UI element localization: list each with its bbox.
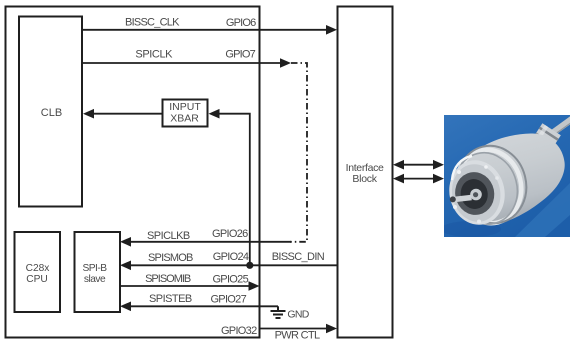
junction dot BISSC_DIN node bbox=[246, 262, 253, 269]
svg-text:PWR CTL: PWR CTL bbox=[275, 330, 320, 342]
hub bbox=[470, 189, 482, 201]
wire SPICLKB GPIO26 bbox=[129, 241, 291, 243]
cable bbox=[547, 119, 572, 137]
arrowhead into INPUT XBAR bbox=[209, 109, 220, 119]
front face rim bbox=[443, 155, 510, 230]
svg-text:GPIO32: GPIO32 bbox=[221, 325, 257, 337]
CLB block bbox=[19, 17, 82, 207]
svg-text:GPIO27: GPIO27 bbox=[210, 294, 246, 306]
dash-dot loopback wire GPIO7 to GPIO26 bbox=[290, 63, 307, 242]
bidirectional wire Interface Block to encoder (lower) bbox=[400, 178, 437, 180]
wire BISSC_DIN branch to INPUT XBAR bbox=[217, 114, 250, 266]
svg-text:C28x: C28x bbox=[26, 263, 50, 274]
svg-text:BISSC_DIN: BISSC_DIN bbox=[272, 251, 325, 263]
svg-text:GPIO25: GPIO25 bbox=[212, 274, 248, 286]
background reflection band bbox=[515, 183, 570, 237]
arrowhead PWR CTL into Interface Block bbox=[326, 324, 337, 334]
svg-text:GPIO24: GPIO24 bbox=[213, 251, 249, 263]
encoder photo bbox=[441, 115, 572, 237]
wire SPICLK GPIO7 bbox=[82, 62, 282, 64]
wire SPISTEB GPIO27 to GND bbox=[129, 305, 278, 307]
svg-text:Block: Block bbox=[352, 173, 377, 185]
svg-text:slave: slave bbox=[84, 274, 106, 285]
wire INPUT XBAR to CLB bbox=[92, 113, 162, 115]
arrowhead SPISMOB into SPI-B slave bbox=[120, 261, 131, 271]
svg-text:CLB: CLB bbox=[41, 107, 62, 119]
arrowhead SPISOMIB to MCU edge bbox=[249, 281, 260, 291]
ground symbol bbox=[271, 306, 286, 318]
encoder body bbox=[457, 134, 565, 225]
body groove dark lines bbox=[450, 138, 535, 230]
wire SPISOMIB GPIO25 bbox=[120, 285, 251, 287]
svg-text:SPISTEB: SPISTEB bbox=[149, 293, 192, 305]
wire SPISMOB GPIO24 BISSC_DIN from Interface Block bbox=[129, 264, 337, 266]
SPI-B slave block bbox=[75, 232, 121, 312]
shadow under encoder bbox=[441, 221, 501, 237]
svg-text:GPIO6: GPIO6 bbox=[226, 17, 256, 29]
arrowhead SPISTEB into SPI-B slave bbox=[120, 302, 131, 312]
arrowhead BISSC_CLK into Interface Block bbox=[326, 25, 337, 35]
svg-text:GPIO26: GPIO26 bbox=[212, 228, 248, 240]
svg-text:INPUT: INPUT bbox=[169, 101, 201, 113]
wire PWR CTL GPIO32 bbox=[260, 328, 328, 330]
svg-text:SPICLKB: SPICLKB bbox=[147, 230, 190, 242]
svg-text:SPI-B: SPI-B bbox=[82, 263, 107, 274]
shaft bbox=[454, 198, 472, 200]
inner dark ring bbox=[451, 168, 498, 218]
body groove bright band bbox=[449, 143, 529, 230]
svg-text:SPISMOB: SPISMOB bbox=[148, 252, 193, 264]
front rim highlight bbox=[452, 156, 472, 180]
svg-text:CPU: CPU bbox=[26, 274, 48, 285]
screws on face bbox=[457, 170, 461, 174]
Interface Block bbox=[338, 7, 393, 338]
svg-text:GND: GND bbox=[287, 309, 309, 321]
arrowhead into CLB bbox=[83, 109, 94, 119]
svg-text:XBAR: XBAR bbox=[170, 113, 199, 125]
svg-text:GPIO7: GPIO7 bbox=[225, 49, 255, 61]
wire BISSC_CLK GPIO6 bbox=[82, 29, 328, 31]
svg-text:SPICLK: SPICLK bbox=[135, 49, 173, 61]
MCU outer box bbox=[6, 7, 260, 338]
arrowhead SPICLKB into SPI-B slave bbox=[120, 237, 131, 247]
photo background bbox=[444, 115, 570, 237]
INPUT XBAR block bbox=[163, 100, 208, 127]
arrowhead SPICLK to loopback bbox=[280, 58, 291, 68]
bidirectional wire Interface Block to encoder (upper) bbox=[400, 164, 437, 166]
cable gland nut bbox=[527, 123, 561, 158]
svg-text:BISSC_CLK: BISSC_CLK bbox=[125, 17, 180, 29]
C28x CPU block bbox=[15, 232, 61, 312]
svg-text:SPISOMIB: SPISOMIB bbox=[145, 273, 191, 285]
